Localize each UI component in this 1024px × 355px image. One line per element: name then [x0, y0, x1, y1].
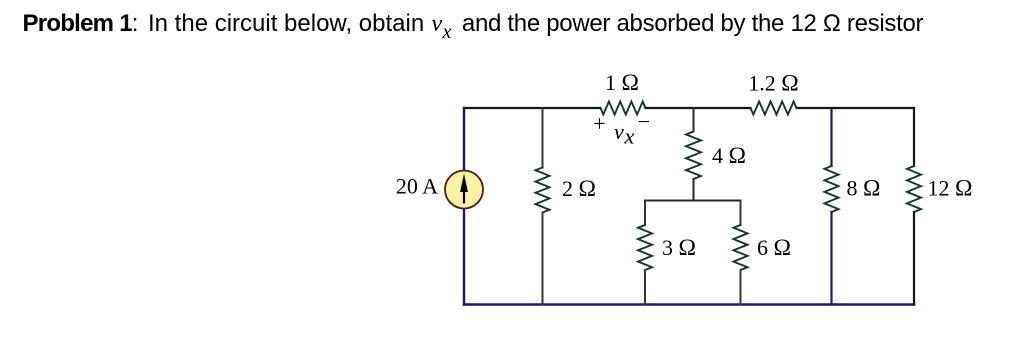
current source arrow [460, 174, 468, 204]
resistor R3 3-ohm zigzag [638, 225, 652, 270]
wire 12-ohm branch lower [913, 212, 915, 305]
title text [23, 12, 139, 36]
wire 4-ohm branch lower [693, 179, 695, 201]
resistor R1 1-ohm zigzag [601, 102, 646, 115]
svg-text:v: v [614, 119, 624, 144]
svg-text:2 Ω: 2 Ω [562, 176, 596, 202]
wire mid rail joining 3-ohm and 6-ohm [645, 200, 741, 202]
wire bottom rail [464, 303, 914, 306]
resistor R8 8-ohm zigzag [825, 166, 839, 212]
current source I1 20 A [445, 171, 483, 209]
svg-text:20 A: 20 A [396, 174, 438, 199]
wire 2-ohm branch lower [542, 213, 544, 305]
resistor R2 2-ohm zigzag [536, 168, 550, 213]
wire 6-ohm branch lower [740, 270, 742, 305]
wire top rail right segment [797, 107, 915, 109]
wire 8-ohm branch upper [830, 108, 832, 166]
svg-text:3 Ω: 3 Ω [662, 235, 696, 261]
svg-text:8 Ω: 8 Ω [847, 176, 881, 202]
wire left branch lower [463, 209, 465, 305]
wire 6-ohm branch upper [740, 201, 742, 226]
wire left branch upper [463, 108, 465, 171]
svg-text:1.2 Ω: 1.2 Ω [748, 71, 798, 97]
wire 12-ohm branch upper [913, 108, 915, 166]
wire 2-ohm branch upper [542, 108, 544, 168]
svg-text:6 Ω: 6 Ω [757, 235, 791, 261]
wire 8-ohm branch lower [830, 212, 832, 305]
wire 4-ohm branch upper [693, 108, 695, 132]
svg-text:1 Ω: 1 Ω [605, 70, 639, 96]
resistor R6 6-ohm zigzag [734, 225, 748, 270]
resistor R5 1.2-ohm zigzag [751, 102, 797, 115]
wire 3-ohm branch lower [644, 270, 646, 305]
wire top rail middle segment [646, 107, 751, 109]
svg-text:x: x [624, 124, 635, 149]
wire 3-ohm branch upper [644, 201, 646, 226]
svg-text:4 Ω: 4 Ω [712, 143, 746, 169]
svg-text:12 Ω: 12 Ω [928, 176, 973, 202]
wire top rail left segment [464, 107, 601, 109]
resistor R4 4-ohm zigzag [686, 132, 701, 180]
resistor R7 12-ohm zigzag [907, 166, 921, 212]
svg-text:−: − [638, 109, 650, 134]
svg-text:+: + [593, 111, 605, 136]
